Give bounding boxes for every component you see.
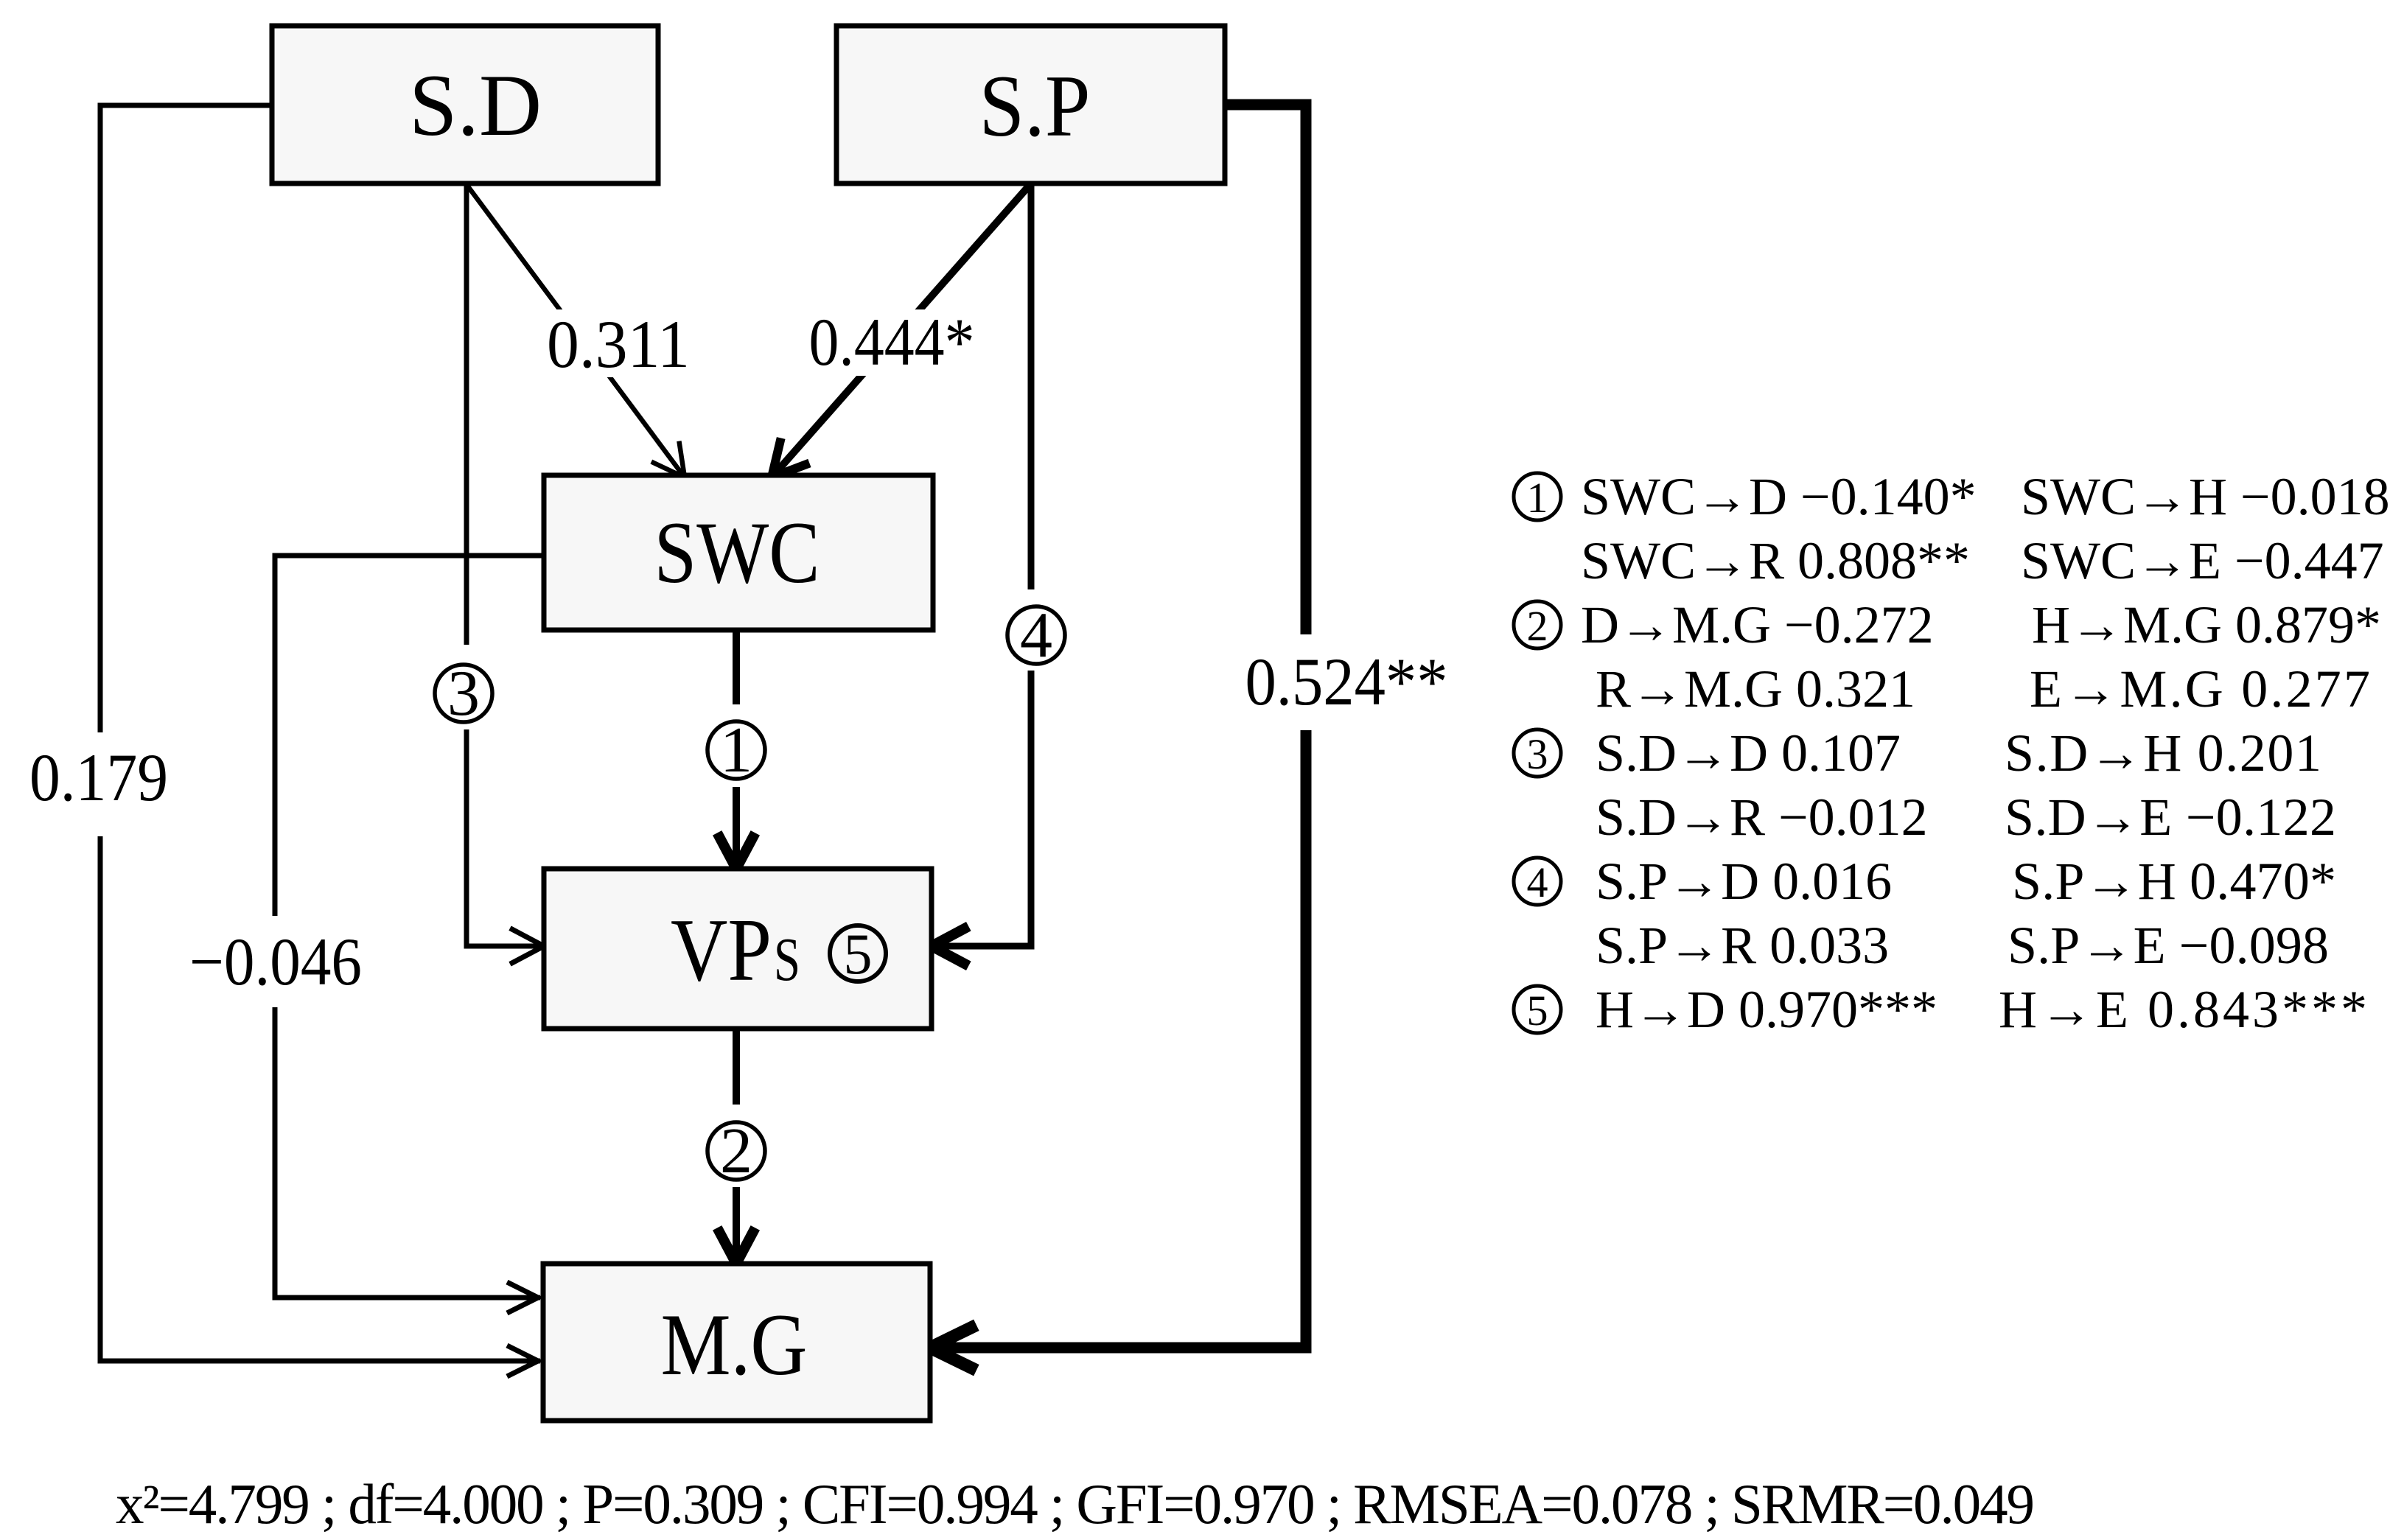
arrowhead into M.G right	[930, 1325, 976, 1370]
label -0.046	[189, 924, 362, 999]
svg-text:S.D→D 0.107: S.D→D 0.107	[1596, 724, 1901, 783]
svg-text:R→M.G 0.321: R→M.G 0.321	[1596, 659, 1915, 718]
arrowhead into SWC top-left	[651, 441, 685, 477]
svg-text:2: 2	[720, 1116, 752, 1187]
svg-text:SWC→H −0.018: SWC→H −0.018	[2021, 467, 2390, 526]
arrowhead into M.G upper-left	[507, 1282, 538, 1313]
svg-text:5: 5	[844, 922, 873, 986]
svg-text:3: 3	[447, 658, 480, 729]
label 0.444*	[802, 304, 982, 379]
svg-text:S: S	[774, 925, 800, 994]
svg-text:0.444*: 0.444*	[809, 304, 975, 379]
svg-text:−0.046: −0.046	[189, 924, 362, 999]
svg-text:VP: VP	[671, 900, 772, 1000]
svg-text:SWC→D −0.140*: SWC→D −0.140*	[1581, 467, 1977, 526]
legend row 5 circled 3	[1514, 729, 1561, 778]
legend row 9 circled 5	[1514, 986, 1561, 1035]
node SWC	[544, 475, 933, 630]
svg-text:SWC: SWC	[654, 503, 820, 601]
wire diagonal S.D to SWC (0.311)	[466, 183, 685, 477]
legend row 1 circled 1	[1514, 473, 1561, 522]
wire diagonal S.P to SWC (0.444*)	[772, 183, 1031, 477]
svg-text:M.G: M.G	[661, 1295, 808, 1393]
label 0.524**	[1245, 644, 1448, 719]
wire 2: VPs down to M.G	[733, 1029, 740, 1259]
node M.G	[543, 1264, 930, 1421]
wire 4: S.P down to VPs	[937, 183, 1031, 946]
svg-text:0.179: 0.179	[29, 740, 168, 815]
svg-text:0.524**: 0.524**	[1245, 644, 1448, 719]
circled 3 on wire 3	[435, 658, 492, 729]
label 0.179	[29, 740, 168, 815]
wire S.P to M.G path (0.524**)	[937, 105, 1306, 1348]
svg-text:S.P→D 0.016: S.P→D 0.016	[1596, 852, 1892, 911]
svg-text:H→D 0.970***: H→D 0.970***	[1596, 980, 1937, 1039]
legend row 7 circled 4	[1514, 858, 1561, 906]
arrowhead into SWC top-right	[772, 438, 809, 478]
svg-text:S.P: S.P	[979, 57, 1091, 155]
svg-text:S.P→R 0.033: S.P→R 0.033	[1596, 916, 1889, 975]
svg-text:S.P→H 0.470*: S.P→H 0.470*	[2012, 852, 2336, 911]
arrowhead into M.G lower-left	[507, 1345, 538, 1376]
circled 1 on wire 1	[707, 715, 765, 786]
svg-text:1: 1	[720, 715, 752, 786]
svg-text:S.D: S.D	[409, 56, 542, 154]
svg-text:SWC→R 0.808**: SWC→R 0.808**	[1581, 531, 1970, 590]
svg-text:H→M.G 0.879*: H→M.G 0.879*	[2032, 595, 2381, 654]
wire S.D to M.G correlation path (0.179)	[100, 105, 540, 1361]
node S.P	[836, 26, 1225, 183]
svg-text:S.D→R −0.012: S.D→R −0.012	[1596, 788, 1928, 847]
label 0.311	[541, 307, 697, 382]
wire 1: SWC down to VPs	[733, 630, 740, 864]
arrowhead into VPs top	[717, 833, 755, 869]
svg-text:4: 4	[1020, 600, 1052, 671]
svg-text:x²=4.799 ; df=4.000 ; P=0.309: x²=4.799 ; df=4.000 ; P=0.309 ; CFI=0.99…	[116, 1472, 2035, 1536]
svg-text:0.311: 0.311	[547, 307, 690, 382]
arrowhead into VPs left	[510, 928, 544, 965]
svg-text:1: 1	[1527, 474, 1548, 522]
node VPs	[544, 869, 932, 1029]
svg-text:5: 5	[1527, 987, 1548, 1035]
circled 4 on wire 4	[1007, 600, 1065, 671]
svg-text:S.D→E −0.122: S.D→E −0.122	[2005, 788, 2336, 847]
svg-text:3: 3	[1527, 730, 1548, 778]
circled 5 inside VPs	[830, 922, 886, 986]
svg-text:SWC→E −0.447: SWC→E −0.447	[2021, 531, 2384, 590]
svg-text:D→M.G −0.272: D→M.G −0.272	[1581, 595, 1934, 654]
svg-text:2: 2	[1527, 602, 1548, 650]
svg-text:4: 4	[1527, 858, 1548, 906]
node S.D	[272, 26, 658, 183]
legend row 3 circled 2	[1514, 601, 1561, 650]
svg-text:H→E 0.843***: H→E 0.843***	[1999, 980, 2367, 1039]
svg-text:S.D→H 0.201: S.D→H 0.201	[2005, 724, 2321, 783]
svg-text:S.P→E −0.098: S.P→E −0.098	[2008, 916, 2329, 975]
wire 3: S.D down to VPs	[467, 183, 541, 946]
circled 2 on wire 2	[707, 1116, 765, 1187]
wire SWC to M.G path (-0.046)	[275, 556, 544, 1298]
arrowhead into M.G top	[717, 1228, 755, 1264]
svg-text:E→M.G 0.277: E→M.G 0.277	[2030, 659, 2370, 718]
arrowhead into VPs right	[932, 926, 968, 966]
